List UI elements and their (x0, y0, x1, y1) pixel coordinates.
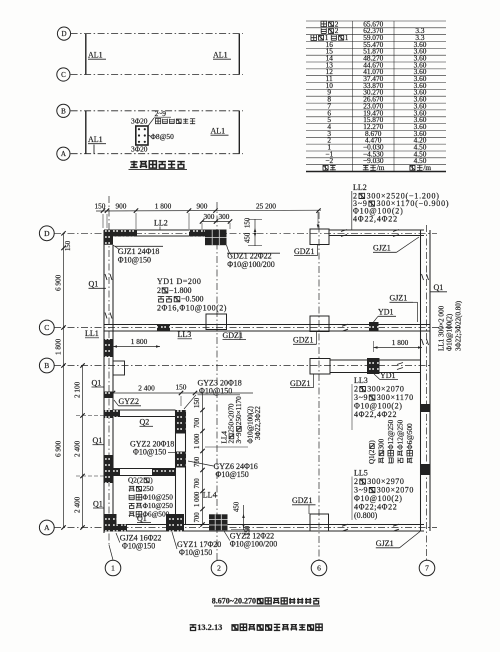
svg-text:AL1: AL1 (88, 135, 103, 144)
interior wall Q2 with GYZ columns (175, 410, 177, 525)
svg-text:GDZ1: GDZ1 (292, 496, 312, 505)
svg-text:Φ10@150: Φ10@150 (216, 470, 249, 479)
svg-text:1 000: 1 000 (194, 433, 201, 449)
svg-text:LL3: LL3 (178, 330, 192, 339)
svg-text:−1.800: −1.800 (169, 286, 192, 295)
svg-text:AL1: AL1 (88, 51, 103, 60)
svg-text:1 000: 1 000 (194, 491, 201, 507)
column GYZ1 (166, 514, 184, 532)
wall Q1 rotated annotation (368, 440, 376, 464)
svg-text:Φ10@150: Φ10@150 (179, 548, 212, 557)
svg-text:Φ10@150: Φ10@150 (122, 542, 155, 551)
svg-text:LL1 300×2 000: LL1 300×2 000 (438, 305, 446, 351)
svg-text:900: 900 (116, 202, 127, 211)
svg-text:LL1: LL1 (85, 329, 99, 338)
svg-text:7: 7 (425, 564, 429, 573)
svg-text:2: 2 (157, 286, 161, 295)
vertical dimension strip 150/700/1000/700... (202, 393, 204, 525)
svg-text:2~9: 2~9 (155, 109, 167, 118)
svg-text:(0.800): (0.800) (354, 511, 378, 520)
column GJZ4 (corner 1/A) (104, 514, 117, 532)
dimension 450/150 at bottom GYZ2 (243, 505, 245, 530)
svg-text:700: 700 (194, 417, 201, 428)
dimension 2400/150 (113, 392, 253, 394)
svg-text:GJZ1: GJZ1 (376, 539, 394, 548)
column GDZ1 at C/6 (310, 316, 329, 332)
sketch grid circle A (57, 147, 70, 160)
svg-text:Q1: Q1 (137, 514, 147, 523)
svg-text:YD1: YD1 (380, 371, 396, 380)
column GDZ1 (grid 2/D) (189, 230, 206, 236)
svg-text:Φ10@150: Φ10@150 (199, 386, 232, 395)
svg-text:LL2: LL2 (154, 219, 168, 228)
svg-text:Q1: Q1 (89, 280, 99, 289)
dimension 1800 (row C) (113, 346, 160, 348)
svg-text:150: 150 (245, 217, 252, 228)
top dimension line 150/900/1800/900/25200 (96, 209, 321, 212)
svg-text:900: 900 (197, 202, 208, 211)
svg-text:YD1: YD1 (378, 308, 394, 317)
svg-text:300: 300 (219, 212, 230, 221)
svg-text:A: A (44, 523, 50, 532)
svg-text:3Φ22;3Φ22(0.80): 3Φ22;3Φ22(0.80) (455, 300, 463, 351)
svg-text:1: 1 (111, 564, 115, 573)
svg-text:Q1(2: Q1(2 (368, 449, 376, 464)
wall along grid B (right wing) (330, 359, 421, 361)
svg-text:2: 2 (335, 26, 339, 35)
wall along grid 1 (Q1) (103, 230, 105, 533)
svg-text:13.2.13: 13.2.13 (197, 623, 222, 632)
column GDZ1 at C/2 (206, 314, 227, 330)
svg-text:300: 300 (204, 212, 215, 221)
svg-text:2 400: 2 400 (74, 496, 82, 513)
wall along grid A (104, 524, 424, 526)
duct YD1 on wall B (367, 358, 380, 374)
svg-text:A: A (61, 150, 66, 158)
wall along grid D (right wing) (329, 229, 424, 231)
svg-text:B: B (61, 107, 66, 115)
svg-text:3Φ20: 3Φ20 (131, 145, 148, 154)
floor elevation table (306, 20, 446, 22)
svg-text:Φ10@100/200: Φ10@100/200 (227, 260, 274, 269)
main plan grid lines (54, 232, 437, 234)
svg-text:D: D (44, 229, 50, 238)
svg-text:150: 150 (65, 240, 72, 251)
svg-text:Q1: Q1 (93, 436, 103, 445)
svg-text:Q1: Q1 (93, 499, 103, 508)
svg-text:150: 150 (176, 383, 187, 392)
svg-text:2 100: 2 100 (74, 381, 82, 398)
sketch grid circle C (57, 68, 70, 81)
svg-text:8.670~20.270: 8.670~20.270 (212, 597, 256, 606)
svg-text:6: 6 (317, 564, 321, 573)
svg-text:2: 2 (217, 564, 221, 573)
svg-text:Φ10@150: Φ10@150 (118, 256, 151, 265)
svg-text:Φ12@250: Φ12@250 (387, 419, 395, 449)
svg-text:Q2(2: Q2(2 (128, 476, 143, 485)
svg-text:B: B (44, 361, 49, 370)
beam LL4 rotated annotation (221, 431, 229, 444)
svg-text:6 900: 6 900 (55, 274, 63, 291)
svg-text:GDZ1: GDZ1 (294, 247, 314, 256)
svg-text:4Φ22,4Φ22: 4Φ22,4Φ22 (354, 410, 397, 419)
wall along grid 7 (Q1) (420, 230, 422, 531)
svg-text:450: 450 (245, 232, 252, 243)
svg-text:GJZ1: GJZ1 (390, 294, 408, 303)
grid circle D (39, 226, 54, 241)
svg-text:1 800: 1 800 (55, 338, 63, 355)
svg-text:25 200: 25 200 (256, 202, 276, 211)
svg-text:GDZ1: GDZ1 (290, 379, 310, 388)
svg-text:2 400: 2 400 (138, 384, 155, 393)
svg-text:C: C (44, 323, 49, 332)
dimension 1800 (right wing) (374, 347, 423, 349)
svg-text:1 800: 1 800 (392, 338, 409, 347)
svg-text:150: 150 (95, 202, 106, 211)
grid circle B (39, 358, 54, 373)
grid circle 2 (211, 560, 227, 576)
dimension 150 near grid D (65, 240, 72, 251)
svg-text:AL1: AL1 (211, 127, 226, 136)
svg-text:700: 700 (194, 456, 201, 467)
column GYZ2 at grid B/1 (113, 361, 125, 375)
interior wall (room middle) (113, 468, 176, 470)
sketch grid axis dash-dot lines (71, 33, 243, 35)
svg-text:300: 300 (378, 438, 386, 449)
sketch grid circle B (57, 104, 70, 117)
svg-text:C: C (61, 71, 66, 79)
svg-text:Q1: Q1 (434, 283, 444, 292)
svg-text:Q1: Q1 (92, 378, 102, 387)
svg-text:250×1170: 250×1170 (235, 396, 243, 425)
svg-text:Φ10@150: Φ10@150 (133, 448, 166, 457)
svg-text:Φ10@100/200: Φ10@100/200 (230, 540, 277, 549)
svg-text:Φ6@500: Φ6@500 (406, 423, 414, 450)
svg-text:Φ12@250: Φ12@250 (397, 419, 405, 449)
svg-text:Q2: Q2 (140, 418, 150, 427)
interior wall (room top) (113, 409, 176, 411)
left dimension lines 6900/1800/2100/2400 (63, 233, 65, 527)
svg-text:AL1: AL1 (213, 51, 228, 60)
svg-text:3Φ22,3Φ22: 3Φ22,3Φ22 (254, 406, 262, 440)
svg-text:450: 450 (234, 501, 241, 512)
column GJZ1 (corner 1/D) (104, 230, 137, 236)
svg-text:GJZ1: GJZ1 (373, 244, 391, 253)
sketch beam AL1 vertical marks (85, 34, 87, 75)
grid circle 6 (311, 560, 327, 576)
column GDZ1 at D/6 (310, 229, 329, 245)
svg-text:/m: /m (423, 163, 431, 172)
column GDZ1 at A/6 (310, 514, 329, 531)
svg-text:700: 700 (194, 512, 201, 523)
beam LL1 rotated annotation (438, 305, 446, 351)
grid circle 7 (419, 560, 435, 576)
wall break marks (105, 274, 107, 280)
svg-text:−2: −2 (325, 156, 333, 165)
wall along grid C with LL1/LL3 beams (104, 324, 430, 326)
grid circle 1 (105, 560, 121, 576)
svg-text:700: 700 (194, 478, 201, 489)
svg-text:GYZ2: GYZ2 (119, 397, 139, 406)
grid circle C (39, 320, 54, 335)
column GYZ2 at A/2 (209, 514, 228, 530)
svg-text:GDZ1: GDZ1 (293, 336, 313, 345)
svg-text:4Φ22,4Φ22: 4Φ22,4Φ22 (353, 214, 398, 223)
grid circle A (39, 520, 54, 535)
svg-text:LL4: LL4 (203, 491, 217, 500)
svg-text:YD1 D=200: YD1 D=200 (157, 277, 201, 286)
svg-text:Φ10@100(2): Φ10@100(2) (446, 313, 454, 351)
vertical dimension 450/150 at GDZ1 (254, 219, 256, 246)
svg-text:6 900: 6 900 (55, 440, 63, 457)
svg-text:3~9: 3~9 (235, 432, 243, 443)
svg-text:3Φ20: 3Φ20 (131, 117, 148, 126)
svg-text:Φ8@50: Φ8@50 (151, 132, 175, 141)
svg-text:2Φ16,Φ10@100(2): 2Φ16,Φ10@100(2) (157, 303, 227, 312)
duct YD1 on wall C (369, 322, 379, 332)
svg-text:D: D (61, 30, 66, 38)
svg-text:1: 1 (345, 33, 349, 42)
sketch caption 暗梁布置简图 (130, 161, 138, 168)
svg-text:2 400: 2 400 (74, 440, 82, 457)
sketch grid circle D (57, 27, 70, 40)
svg-text:1 800: 1 800 (155, 202, 172, 211)
svg-text:/m: /m (377, 163, 385, 172)
svg-text:1 800: 1 800 (131, 337, 148, 346)
svg-text:−0.500: −0.500 (181, 295, 204, 304)
svg-text:150: 150 (194, 397, 201, 408)
wall along grid D (left wing) with LL2 opening (104, 229, 227, 231)
